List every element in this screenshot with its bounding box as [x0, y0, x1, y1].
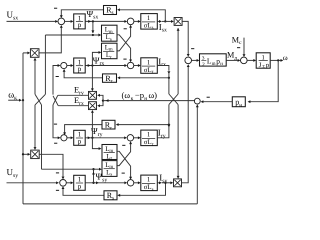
wire block B output cross up to S1b	[117, 25, 132, 51]
wire Isx to multiplier M1	[157, 20, 174, 23]
wire S1 to integrator 1	[65, 20, 74, 23]
wire S2a to integrator 2	[67, 64, 74, 67]
sign minus at S3b bottom input	[122, 144, 125, 146]
gain block Rr row2	[103, 74, 117, 85]
summing junction torque	[185, 57, 192, 64]
multiplier M1 Isx x Iry	[174, 18, 182, 26]
node Psi_sy label	[96, 172, 108, 184]
wire block D output cross up to S3b	[117, 141, 132, 165]
wire torque summer to gain	[192, 59, 200, 62]
svg-text:3: 3	[202, 56, 205, 62]
wire Rr3 feedback to S3a top	[63, 125, 102, 136]
gain block Rr row3	[102, 120, 115, 131]
label E_ry	[74, 86, 84, 97]
label Iry	[158, 128, 166, 140]
node Psi_ry label	[91, 126, 103, 138]
sign minus at S1b bottom input	[124, 28, 127, 30]
summing junction S1b	[127, 18, 134, 25]
summing junction S1	[58, 18, 65, 25]
input label Usx	[7, 10, 19, 22]
multiplier BL wk x Psi_sx	[31, 150, 40, 159]
gain block Pn	[232, 97, 245, 109]
wire TL output to S1 bottom	[39, 25, 63, 53]
summing junction S3a	[61, 135, 67, 141]
summing junction S3b	[127, 135, 133, 141]
wire Pn output to speed summer	[201, 100, 233, 103]
integrator block 1/p row1	[74, 14, 86, 29]
svg-text:p: p	[78, 65, 82, 73]
gain block Rs row4	[104, 191, 117, 202]
wire Isx tap to Rs input	[117, 8, 166, 22]
svg-text:ω: ω	[283, 53, 288, 62]
label Isx	[159, 22, 167, 34]
label E_rx	[74, 96, 84, 107]
wire Irx to cross bus	[157, 66, 170, 95]
gain block 1/sigmaLs row4	[141, 175, 158, 192]
wire Psi_rx tap up to block B	[92, 51, 101, 66]
sign minus at S4a bottom input	[56, 189, 59, 191]
wire Md to Mc summer	[226, 59, 240, 62]
wire Psi_sy node to S4b	[85, 181, 127, 184]
sign minus at S4a top input	[56, 172, 59, 174]
label (wk-pn w)	[122, 90, 158, 102]
wire Psi_sx node to S1b	[85, 20, 127, 23]
wire Psi_rx node to S2b	[85, 64, 127, 67]
summing junction S2b	[127, 62, 133, 68]
wire wk bottom bus	[23, 203, 197, 205]
wire S4a to integrator 4	[66, 181, 73, 184]
svg-text:н: н	[220, 62, 223, 67]
wire Psi_sx into block A	[93, 34, 101, 37]
wire Psi_sx tap down	[91, 21, 94, 36]
sign minus at S3a top input	[54, 123, 57, 125]
wire Psi_rx tap down to MA	[91, 66, 94, 92]
sign minus at S3a left input	[54, 142, 57, 144]
wire wk to multiplier TL	[23, 51, 30, 54]
wire Rr2 feedback to S2a bottom	[63, 69, 103, 78]
multiplier TL wk x Psi_sy	[30, 49, 39, 58]
wire Iry tap to Rr3 input	[116, 123, 170, 126]
integrator block 1/p row3	[74, 130, 86, 145]
wire Psi_sy bus up	[41, 105, 43, 169]
wire speed term (wk-pnw)	[103, 99, 194, 102]
integrator block 1/p row2	[74, 58, 86, 73]
wire wk input	[8, 99, 24, 102]
wire bracket to MA MB right inputs	[97, 94, 104, 107]
sign minus at Mc summer top	[237, 47, 240, 49]
summing junction speed wk-pnw	[194, 98, 200, 104]
svg-text:1: 1	[147, 15, 150, 22]
svg-text:ω): ω)	[149, 90, 158, 100]
wire Psi_sy tap up	[92, 168, 95, 183]
wire Iry up into M1	[177, 28, 180, 94]
wire Psi_ry node to S3b	[85, 136, 127, 139]
wire E cross X swap	[53, 95, 58, 105]
wire Psi_sy into block D	[94, 168, 102, 171]
wire Mc summer to J block	[247, 59, 256, 62]
label Md torque	[227, 51, 237, 62]
wire Rs4 feedback to S4a bottom	[62, 186, 104, 195]
svg-text:p: p	[78, 182, 82, 190]
label Isy	[159, 173, 167, 185]
wire MB output E_rx left	[58, 105, 88, 107]
gain block 1/sigmaLr row3	[141, 130, 158, 147]
svg-text:1: 1	[147, 59, 150, 66]
wire S3a to integrator 3	[67, 136, 73, 139]
gain block Lm/Lr block C	[102, 145, 117, 162]
sign minus at S2b top input	[123, 58, 126, 60]
wire E_ry bus down to S3a	[53, 105, 61, 139]
wire S2b to sigma block 2	[134, 64, 141, 67]
svg-text:m: m	[212, 62, 216, 67]
wire wk bus vertical	[22, 53, 24, 204]
wire Psi_sy bus to multiplier TL bottom	[34, 58, 37, 95]
label Mc load torque	[232, 35, 242, 46]
summing junction S4a	[60, 180, 67, 187]
wire Irx down to multiplier M4	[177, 105, 180, 179]
wire Psi_sy distribution to bus	[42, 168, 94, 170]
svg-text:p: p	[78, 21, 82, 29]
wire M4 output up to torque summer	[182, 64, 190, 183]
wire M1 output to torque summer	[182, 21, 190, 56]
wire cross X swap Irx Iry	[169, 94, 178, 105]
wire Isy tap to Rs4 input	[117, 182, 166, 197]
wire wk branch to multiplier BL	[22, 153, 31, 156]
gain block 3/2 Lm pn	[200, 54, 227, 68]
node Psi_rx label	[93, 55, 105, 67]
wire block C output cross down to S4b	[117, 151, 132, 179]
svg-text:1: 1	[147, 132, 150, 139]
wire BL output to S4a top	[39, 154, 64, 179]
gain block 1/sigmaLs row1	[141, 14, 158, 31]
wire omega feedback to Pn	[248, 60, 279, 103]
wire Usy input	[7, 181, 59, 184]
label Irx	[158, 56, 166, 68]
wire Psi_sx bus to multiplier BL	[34, 105, 37, 150]
summing junction S4b	[127, 180, 133, 186]
wire wk up into speed summer	[196, 104, 199, 203]
sign minus at torque summer top	[191, 48, 194, 50]
wire Psi_ry tap down to block C	[92, 138, 101, 150]
svg-text:н: н	[144, 96, 147, 102]
svg-text:1: 1	[147, 177, 150, 184]
label omega output	[283, 53, 288, 62]
wire omega output	[270, 59, 283, 62]
wire Iry to cross bus	[157, 105, 170, 138]
wire Usx input	[7, 20, 59, 23]
wire Mc input down	[243, 38, 246, 57]
sign minus at S4b top input	[122, 172, 125, 174]
sign minus at S2a bottom input	[56, 76, 59, 78]
multiplier MB	[89, 102, 97, 110]
svg-text:(ω: (ω	[122, 90, 131, 100]
svg-text:2: 2	[202, 62, 205, 68]
gain block 1/sigmaLr row2	[141, 58, 158, 75]
wire S4b to sigma block 4	[134, 181, 141, 184]
input label Usy	[7, 167, 19, 179]
wire Psi_sx bus down	[44, 35, 46, 94]
wire S1 top feedback from Rs	[60, 10, 104, 18]
svg-text:p: p	[78, 137, 82, 145]
wire Isy to multiplier M4	[157, 181, 173, 184]
gain block Rs row1	[104, 5, 117, 16]
wire Psi_sx distribution to bus	[45, 34, 93, 36]
wire S1b to sigma block 1	[134, 20, 141, 23]
gain block Lm/Ls block A	[102, 25, 118, 42]
sign minus at S1 top input	[54, 7, 57, 9]
gain block 1/(J p)	[256, 53, 270, 69]
integrator block 1/p row4	[74, 175, 86, 190]
multiplier M4 Isy x Irx	[174, 179, 182, 187]
svg-text:к: к	[131, 96, 134, 102]
wire left cross X swap	[35, 94, 45, 105]
wire E bus up to S2a	[53, 64, 60, 95]
multiplier MA	[89, 91, 97, 99]
svg-text:−p: −p	[135, 90, 144, 100]
svg-text:J: J	[259, 62, 262, 69]
wire Psi_ry tap up to MB	[91, 110, 94, 138]
summing junction Mc	[241, 57, 248, 64]
input label wk	[8, 90, 17, 102]
wire Irx tap to Rr2 input	[117, 76, 170, 79]
sign minus at speed summer right	[207, 96, 210, 98]
wire block A output cross down to S2b	[117, 35, 132, 63]
gain block Lm/Lr block B	[102, 43, 118, 60]
wire MA output E_ry left	[58, 94, 89, 96]
summing junction S2a	[61, 62, 67, 68]
gain block Lm/Ls block D	[102, 161, 117, 178]
wire S3b to sigma block 3	[134, 136, 141, 139]
node Psi_sx label	[87, 9, 99, 21]
